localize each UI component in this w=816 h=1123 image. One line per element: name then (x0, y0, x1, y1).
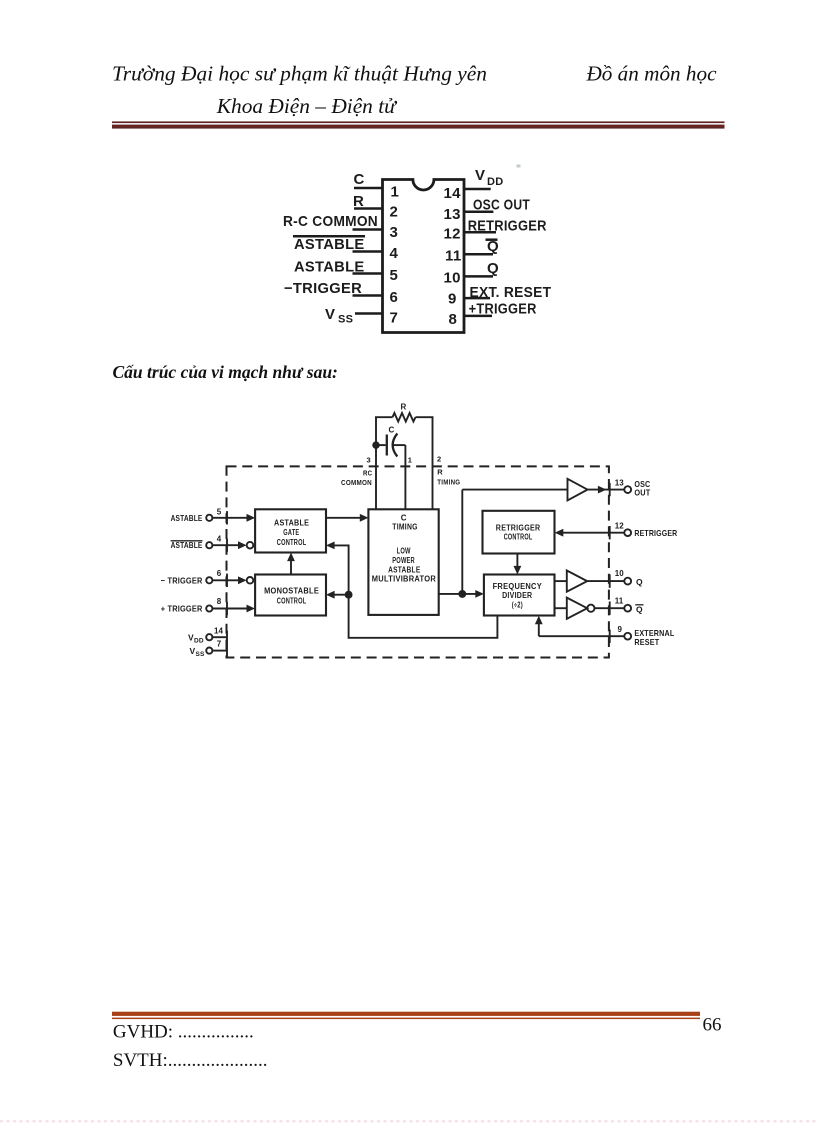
pin 8 +TRIGGER terminal circle (206, 605, 212, 611)
block FREQUENCY DIVIDER (484, 575, 555, 616)
svg-text:6: 6 (217, 569, 222, 578)
svg-text:C: C (401, 513, 407, 522)
svg-text:Q: Q (636, 604, 643, 614)
svg-text:9: 9 (618, 625, 623, 634)
svg-text:13: 13 (444, 206, 461, 223)
svg-text:OSC OUT: OSC OUT (473, 197, 530, 214)
svg-text:10: 10 (444, 270, 461, 287)
svg-text:COMMON: COMMON (341, 478, 372, 487)
svg-text:SS: SS (338, 314, 353, 326)
header rule thin-thick dark red (112, 121, 725, 123)
wire Qbar bubble to pin11 (595, 607, 625, 609)
pin 1 wire (354, 187, 383, 190)
svg-text:TIMING: TIMING (392, 523, 417, 532)
svg-text:GVHD: ................: GVHD: ................ (113, 1022, 254, 1043)
IC body U1 with notch (383, 180, 465, 333)
arrow osc out (598, 486, 607, 494)
svg-text:V: V (475, 167, 485, 184)
Q-bar overline pin11 (486, 238, 498, 241)
svg-text:EXT. RESET: EXT. RESET (470, 284, 552, 301)
svg-text:GATE: GATE (283, 528, 299, 537)
pin 5 ASTABLE input: terminal circle (206, 515, 212, 521)
wire top loop right (416, 416, 434, 418)
fig2 small text (264, 403, 542, 610)
svg-text:ASTABLE: ASTABLE (171, 540, 203, 550)
bubble pin4 at AGC input (247, 542, 254, 549)
svg-text:R: R (353, 193, 364, 210)
pin 14 VDD terminal circle (206, 634, 212, 640)
svg-text:ASTABLE: ASTABLE (294, 258, 365, 275)
pin 13 wire (464, 210, 493, 213)
svg-text:12: 12 (615, 521, 624, 530)
wire pin4 (212, 544, 239, 546)
svg-text:5: 5 (390, 267, 399, 284)
svg-text:Q: Q (636, 577, 643, 587)
arrow feedback into MC (326, 591, 335, 599)
pin 11 Q-bar terminal circle (624, 605, 631, 612)
svg-text:SVTH:.....................: SVTH:..................... (113, 1050, 268, 1071)
svg-text:CONTROL: CONTROL (277, 596, 307, 605)
wire pin9 vertical to FD bottom (538, 623, 540, 637)
svg-text:3: 3 (367, 456, 371, 465)
svg-text:CONTROL: CONTROL (277, 538, 307, 547)
node dot MV-FD junction (459, 591, 465, 597)
node dot RC loop left (373, 442, 379, 448)
svg-text:RETRIGGER: RETRIGGER (496, 524, 541, 533)
svg-text:9: 9 (448, 291, 457, 308)
buffer Q-bar triangle (567, 598, 587, 619)
svg-text:ASTABLE: ASTABLE (171, 513, 203, 523)
svg-text:V: V (325, 306, 335, 323)
svg-text:RETRIGGER: RETRIGGER (634, 528, 677, 538)
pin 7 wire (355, 312, 383, 315)
pin 14 wire (464, 188, 491, 191)
svg-text:LOW: LOW (397, 546, 411, 555)
svg-text:DIVIDER: DIVIDER (502, 591, 532, 600)
svg-text:ASTABLE: ASTABLE (388, 566, 421, 575)
svg-text:8: 8 (449, 311, 458, 328)
arrow ext reset up into FD (535, 616, 543, 625)
wire pin5 (212, 517, 248, 519)
svg-text:RETRIGGER: RETRIGGER (468, 218, 547, 235)
svg-text:Cấu trúc của vi mạch như sau:: Cấu trúc của vi mạch như sau: (113, 362, 338, 382)
svg-text:4: 4 (390, 245, 399, 262)
pin 9 wire (464, 297, 490, 300)
arrow pin5 into AGC (247, 514, 256, 522)
arrow pin4 into bubble (238, 541, 247, 549)
svg-text:MULTIVIBRATOR: MULTIVIBRATOR (372, 575, 436, 584)
wire feedback to MC (335, 594, 349, 596)
wire top loop left (375, 416, 393, 418)
svg-text:OUT: OUT (634, 488, 651, 498)
svg-text:12: 12 (444, 226, 461, 243)
svg-text:5: 5 (217, 508, 222, 517)
stray scan speck (517, 165, 521, 168)
svg-text:1: 1 (391, 184, 400, 201)
svg-text:3: 3 (390, 224, 399, 241)
block RETRIGGER CONTROL (483, 511, 555, 554)
pin 12 wire (464, 231, 496, 234)
svg-text:+TRIGGER: +TRIGGER (469, 301, 537, 318)
footer rule thick-thin orange (112, 1012, 700, 1016)
svg-text:4: 4 (217, 535, 222, 544)
pin 10 Q terminal circle (624, 578, 631, 585)
wire pin7 (212, 650, 227, 652)
svg-text:(÷2): (÷2) (512, 600, 523, 609)
wire MV out to FD (439, 593, 477, 595)
arrow RC to FD down (514, 566, 522, 575)
pin 10 wire (464, 275, 493, 278)
block LOW POWER ASTABLE MULTIVIBRATOR (368, 509, 438, 615)
capacitor C right curved plate (393, 434, 398, 457)
arrow MV to FD (475, 590, 484, 598)
resistor R zigzag (393, 413, 416, 422)
wire cap to pin1 (392, 444, 405, 446)
wire MC to AGC vertical (290, 560, 292, 575)
buffer Q triangle (567, 571, 587, 592)
faint bottom scan dotted line (0, 1120, 816, 1122)
pin 3 wire (353, 228, 383, 231)
wire pin9 horizontal (539, 635, 625, 637)
pin 8 wire (464, 315, 492, 318)
arrow retrigger into RC (555, 529, 564, 537)
svg-text:7: 7 (390, 310, 399, 327)
wire RC to FD vertical (516, 554, 518, 568)
pin 11 wire (464, 253, 493, 256)
wire pin2 vertical (R TIMING) (432, 417, 434, 509)
label ASTABLE-bar overline (171, 540, 203, 542)
wire pin3 vertical (RC COMMON) (375, 417, 377, 509)
block MONOSTABLE CONTROL (255, 575, 326, 616)
wire FD to Qbar buffer (555, 607, 567, 609)
svg-text:Q: Q (487, 238, 499, 255)
svg-text:−TRIGGER: −TRIGGER (284, 280, 362, 297)
wire feedback FD bottom drop (335, 545, 498, 637)
svg-text:R-C COMMON: R-C COMMON (283, 213, 378, 230)
footer text (113, 1015, 722, 1071)
svg-text:− TRIGGER: − TRIGGER (161, 575, 203, 585)
svg-text:Khoa Điện – Điện tử: Khoa Điện – Điện tử (216, 94, 398, 118)
wire Q buffer to pin10 (587, 580, 624, 582)
svg-text:RC: RC (363, 469, 373, 478)
svg-text:14: 14 (444, 185, 462, 202)
svg-text:8: 8 (217, 597, 222, 606)
svg-text:SS: SS (196, 651, 206, 658)
wire riser to osc buffer (462, 489, 567, 491)
wire pin1 vertical (C) (404, 445, 406, 509)
svg-text:DD: DD (194, 638, 204, 645)
pin 2 wire (354, 207, 383, 210)
svg-text:ASTABLE: ASTABLE (274, 518, 310, 527)
wire osc buffer to pin13 (588, 489, 625, 491)
pin 9 EXTERNAL RESET terminal circle (624, 633, 631, 640)
arrow pin6 into bubble (238, 576, 247, 584)
arrow feedback into AGC (326, 542, 335, 550)
bubble pin6 at MC input (247, 577, 254, 584)
wire node to cap (376, 444, 386, 446)
node dot feedback-MC junction (346, 592, 352, 598)
buffer U-osc triangle (568, 479, 588, 501)
svg-text:2: 2 (390, 204, 399, 221)
arrow MC to AGC up (287, 553, 295, 562)
svg-text:14: 14 (214, 626, 223, 635)
svg-text:FREQUENCY: FREQUENCY (493, 582, 543, 591)
svg-text:CONTROL: CONTROL (504, 533, 533, 542)
wire pin8 (212, 608, 248, 610)
svg-text:RESET: RESET (634, 637, 660, 647)
pin 4 wire (353, 250, 383, 253)
wire FD to Q buffer (555, 580, 567, 582)
pin 7 VSS terminal circle (206, 648, 212, 654)
pin 6 -TRIGGER terminal circle (206, 577, 212, 583)
arrow AGC to MV (360, 514, 369, 522)
block ASTABLE GATE CONTROL (255, 509, 326, 552)
wire pin14 (212, 636, 227, 638)
svg-text:Q: Q (487, 260, 499, 277)
svg-text:R: R (401, 403, 407, 412)
wire osc vertical riser (461, 490, 463, 594)
label Q-bar overline (pin11) (635, 604, 643, 606)
svg-text:+ TRIGGER: + TRIGGER (161, 604, 203, 614)
svg-text:C: C (354, 171, 365, 188)
svg-text:POWER: POWER (392, 556, 415, 565)
wire pin6 (212, 579, 239, 581)
svg-text:DD: DD (487, 176, 504, 188)
svg-text:11: 11 (445, 248, 461, 265)
svg-text:Đồ án môn học: Đồ án môn học (585, 61, 717, 85)
bubble Q-bar inverter (587, 605, 594, 612)
svg-text:C: C (389, 425, 395, 434)
arrowheads (238, 486, 607, 625)
wire AGC to MV (326, 517, 362, 519)
pin 12 RETRIGGER terminal circle (624, 529, 631, 536)
svg-text:R: R (437, 468, 443, 477)
wire pin12 to RC block (561, 532, 624, 534)
svg-text:6: 6 (390, 289, 399, 306)
svg-text:TIMING: TIMING (437, 478, 460, 487)
svg-text:MONOSTABLE: MONOSTABLE (264, 587, 319, 596)
svg-text:66: 66 (703, 1015, 722, 1036)
capacitor C left plate (386, 435, 388, 456)
svg-text:10: 10 (615, 569, 624, 578)
pin 4 ASTABLE-bar terminal circle (206, 542, 212, 548)
svg-text:ASTABLE: ASTABLE (294, 236, 365, 253)
pin 6 wire (353, 294, 383, 297)
svg-text:1: 1 (408, 456, 412, 465)
pin 13 OSC OUT terminal circle (624, 486, 631, 493)
IC boundary dashed box (227, 466, 609, 657)
svg-text:7: 7 (217, 639, 222, 648)
svg-text:2: 2 (437, 455, 441, 464)
svg-text:13: 13 (615, 478, 624, 487)
svg-text:Trường Đại học sư phạm kĩ thuậ: Trường Đại học sư phạm kĩ thuật Hưng yên (112, 61, 487, 85)
svg-text:11: 11 (615, 596, 624, 605)
arrow pin8 into MC (247, 605, 256, 613)
ASTABLE-bar overline pin4 (293, 235, 365, 238)
border ticks at wire crossings (226, 511, 228, 524)
pin 5 wire (353, 272, 383, 275)
